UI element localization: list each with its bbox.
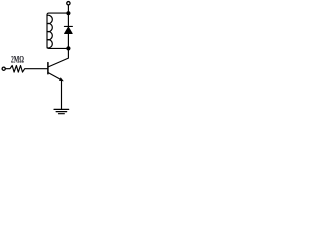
svg-text:2MΩ: 2MΩ (11, 54, 24, 65)
